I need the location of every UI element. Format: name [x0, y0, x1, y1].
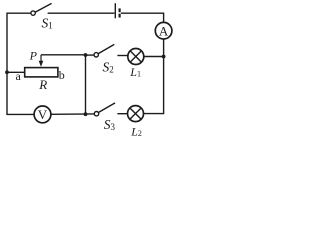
wire ammeter down right side to lamp L2 [143, 39, 163, 114]
svg-text:a: a [16, 69, 22, 83]
svg-text:P: P [29, 48, 38, 62]
switch S3 fixed contact wire to lamp L2 [117, 113, 127, 115]
wire node to switch S2 [86, 54, 95, 56]
lamp L2 [128, 106, 144, 122]
switch S2 [94, 44, 114, 57]
resistor R (rheostat body) [25, 68, 58, 77]
lamp L1 [128, 49, 144, 65]
node junction middle/voltmeter/S3 [84, 112, 88, 116]
wire node a to rheostat [7, 71, 25, 73]
wire slider P to middle node [41, 54, 86, 56]
svg-text:b: b [59, 68, 65, 82]
switch S1 [31, 3, 52, 15]
svg-text:R: R [38, 77, 47, 92]
ammeter A [155, 22, 172, 39]
wire left-bottom corner to voltmeter [7, 72, 34, 114]
node junction P/S2/middle [84, 53, 88, 57]
svg-text:A: A [159, 23, 169, 38]
wire lamp L1 to right wire [144, 56, 164, 58]
wire from S1 fixed contact to battery [48, 12, 115, 14]
battery [115, 3, 119, 18]
wire battery to top-right corner down to ammeter [121, 13, 164, 22]
wire top-left from left corner to switch S1 pivot [7, 13, 31, 72]
rheostat slider P arrow [39, 55, 44, 67]
node junction L1-right on ammeter wire [162, 55, 166, 59]
svg-text:V: V [38, 107, 48, 122]
switch S3 [94, 103, 115, 116]
wire voltmeter to S3 [51, 113, 95, 115]
node junction left-wire/rheostat-a [5, 70, 9, 74]
voltmeter V [34, 106, 51, 123]
switch S2 fixed contact wire to lamp L1 [117, 55, 128, 57]
wire middle vertical [85, 55, 87, 114]
